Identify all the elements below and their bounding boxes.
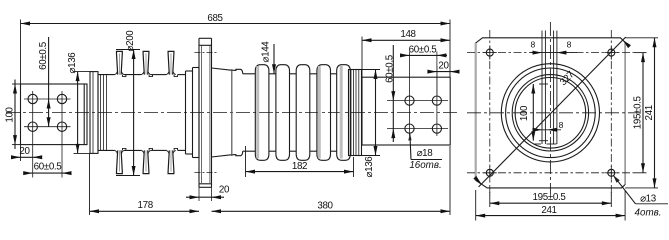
svg-text:178: 178 (138, 200, 154, 211)
svg-text:20: 20 (219, 184, 230, 195)
svg-text:⌀13: ⌀13 (640, 194, 657, 205)
svg-text:8: 8 (530, 40, 535, 50)
svg-text:20: 20 (438, 61, 449, 72)
svg-text:⌀18: ⌀18 (417, 148, 434, 159)
svg-text:241: 241 (644, 105, 655, 120)
svg-text:60±0.5: 60±0.5 (34, 162, 63, 173)
svg-text:327: 327 (558, 69, 577, 88)
svg-text:148: 148 (400, 29, 416, 40)
svg-text:⌀144: ⌀144 (261, 41, 272, 63)
svg-text:4отв.: 4отв. (635, 207, 662, 218)
svg-text:⌀136: ⌀136 (67, 52, 78, 74)
svg-text:100: 100 (519, 105, 530, 121)
svg-text:685: 685 (207, 13, 223, 24)
svg-text:20: 20 (19, 146, 30, 157)
svg-text:380: 380 (317, 200, 333, 211)
svg-text:8: 8 (567, 40, 572, 50)
svg-text:60±0.5: 60±0.5 (38, 41, 49, 70)
svg-text:16отв.: 16отв. (409, 160, 441, 171)
svg-text:⌀136: ⌀136 (364, 156, 375, 178)
svg-text:241: 241 (541, 205, 556, 216)
svg-text:⌀200: ⌀200 (125, 30, 136, 52)
svg-text:8: 8 (559, 120, 564, 130)
svg-text:195±0.5: 195±0.5 (533, 192, 567, 203)
svg-text:182: 182 (292, 161, 307, 172)
svg-text:60±0.5: 60±0.5 (409, 44, 438, 55)
svg-text:60±0.5: 60±0.5 (385, 54, 396, 83)
svg-text:100: 100 (5, 106, 16, 122)
svg-text:195±0.5: 195±0.5 (632, 95, 643, 129)
